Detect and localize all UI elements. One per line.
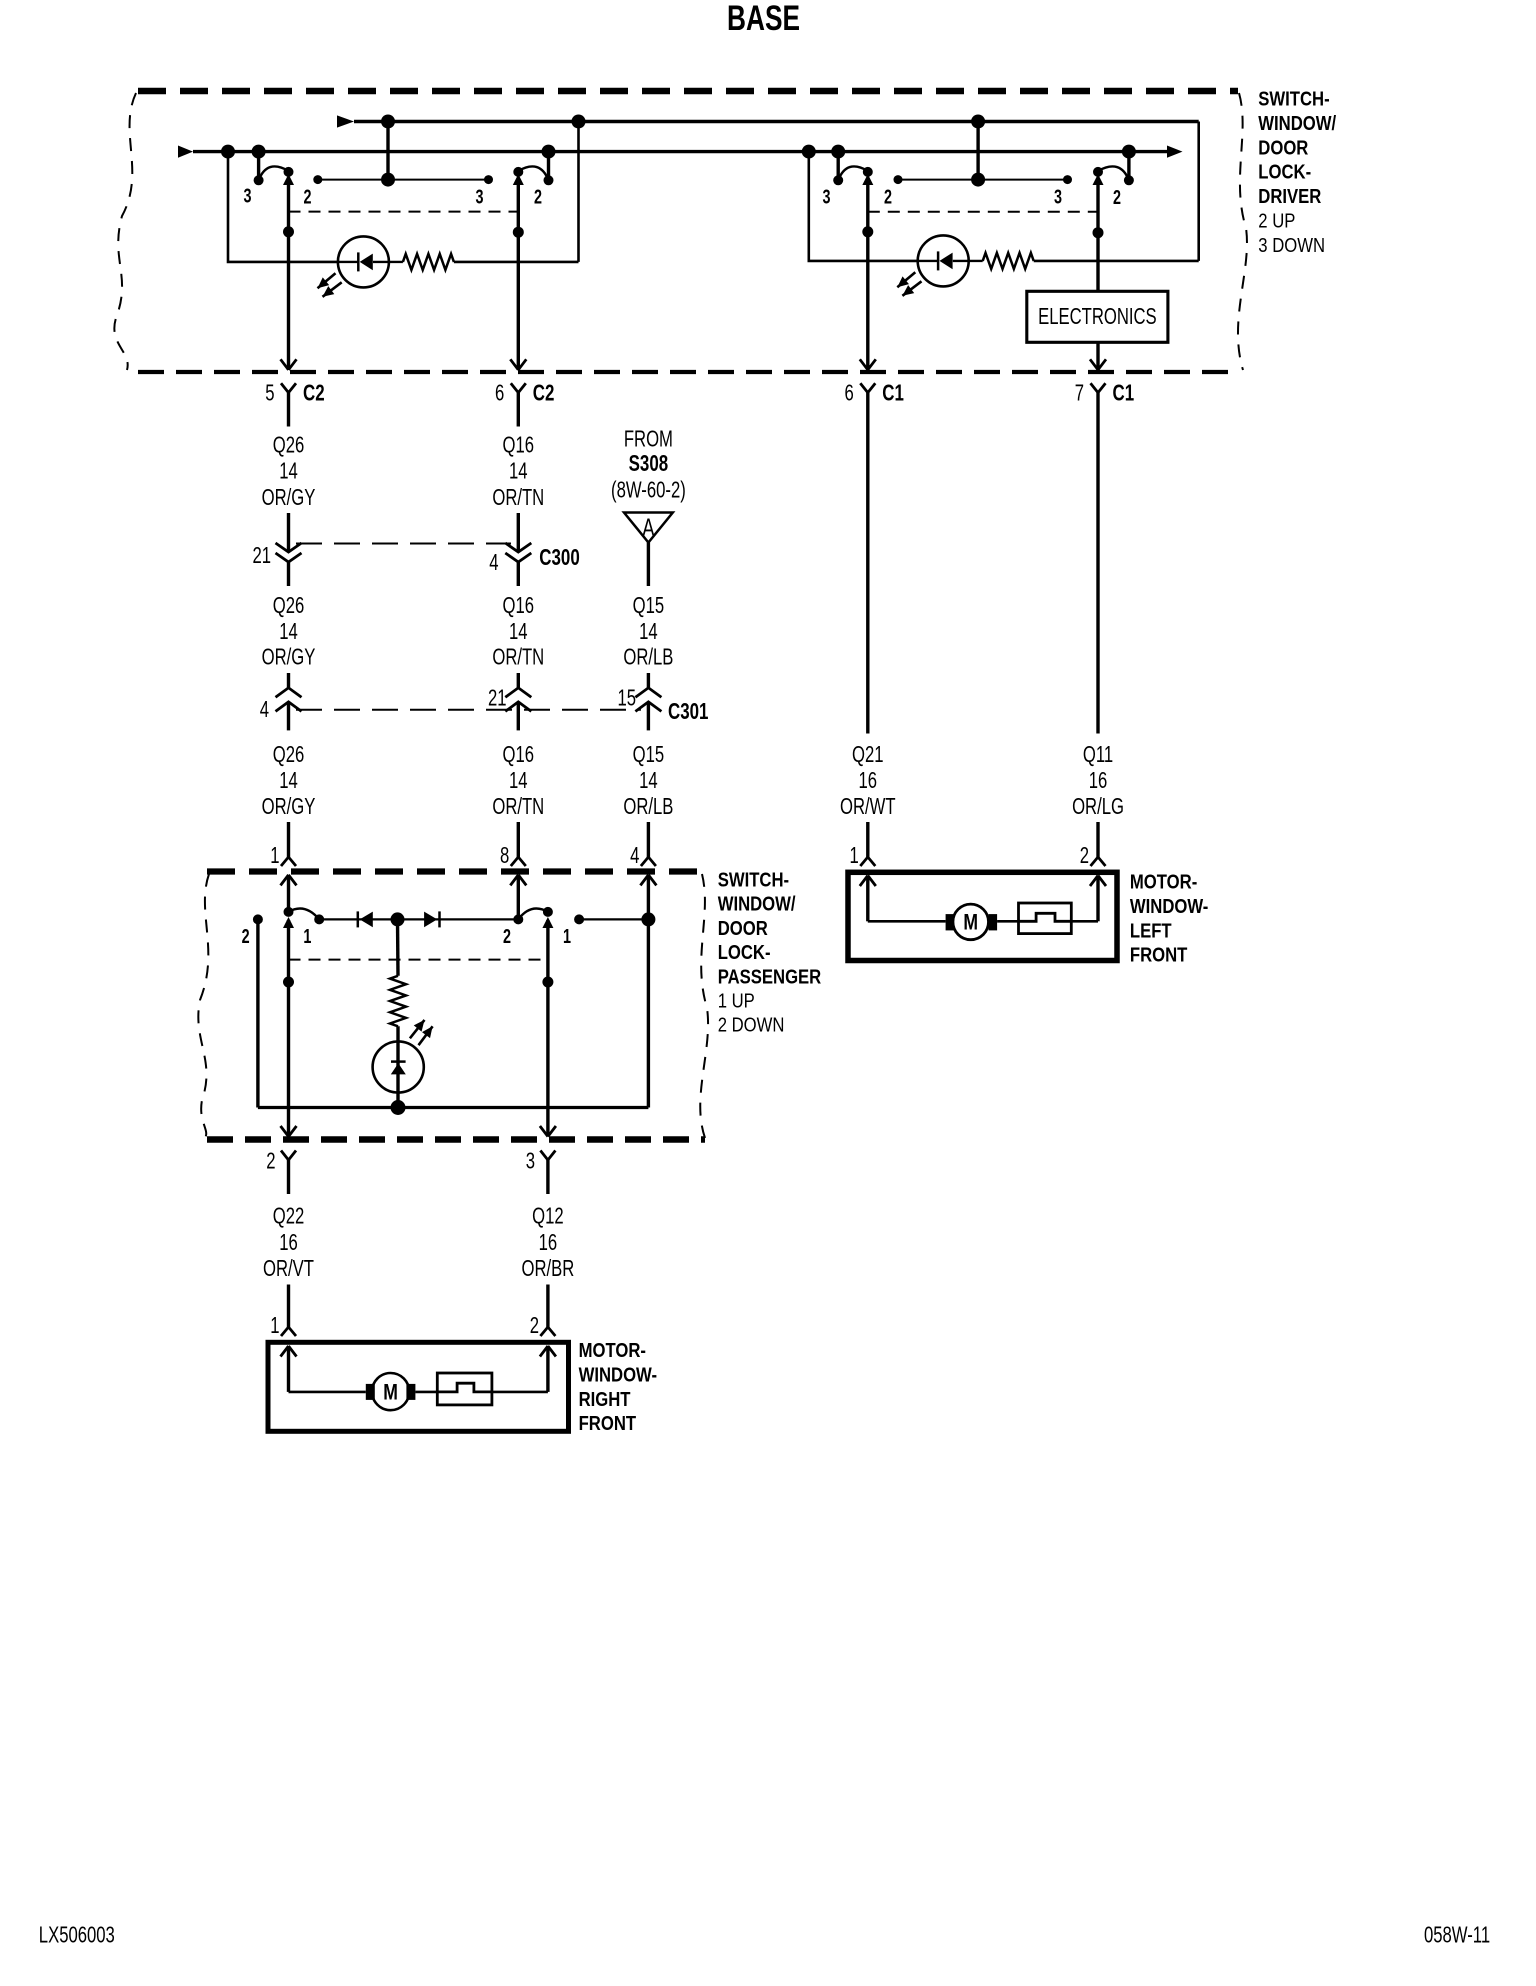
svg-text:(8W-60-2): (8W-60-2) <box>611 478 686 503</box>
C300 dashed link <box>296 543 511 545</box>
wire: electronics to connector 7 <box>1096 342 1099 370</box>
svg-text:LOCK-: LOCK- <box>718 941 771 964</box>
contact bridge line <box>898 179 1068 181</box>
svg-text:14: 14 <box>509 459 528 484</box>
circuit breaker right <box>415 1391 437 1394</box>
svg-text:2: 2 <box>530 1313 539 1338</box>
connector C301 pin 21 <box>505 688 531 698</box>
svg-text:WINDOW/: WINDOW/ <box>718 892 796 915</box>
svg-text:4: 4 <box>630 843 639 868</box>
wire: wiper to connector 6 C1 <box>866 179 869 370</box>
connector 6 C1 <box>860 383 875 392</box>
wire: wiper to connector 5 <box>287 179 290 370</box>
svg-text:4: 4 <box>489 550 498 575</box>
svg-text:3: 3 <box>475 185 483 208</box>
diode right <box>424 912 437 928</box>
off-page triangle A <box>624 513 673 543</box>
wire to motor right pin 1 <box>287 1285 290 1328</box>
svg-text:OR/TN: OR/TN <box>492 795 544 820</box>
svg-text:2: 2 <box>1080 843 1089 868</box>
svg-text:OR/TN: OR/TN <box>492 645 544 670</box>
svg-text:A: A <box>642 513 654 542</box>
svg-text:Q16: Q16 <box>503 433 535 458</box>
svg-text:16: 16 <box>859 768 878 793</box>
svg-text:2: 2 <box>242 925 250 948</box>
wire to passenger switch pin 8 <box>517 822 520 857</box>
svg-text:Q16: Q16 <box>503 742 535 767</box>
svg-text:Q12: Q12 <box>532 1204 564 1229</box>
svg-text:Q15: Q15 <box>633 742 665 767</box>
wire wiper to pin 2 exit <box>287 920 290 1137</box>
svg-text:1: 1 <box>563 925 571 948</box>
passenger switch wiper right <box>513 914 523 924</box>
motor M right <box>372 1373 409 1410</box>
switch wiper (right half of C2 switch) <box>513 167 523 177</box>
svg-text:1 UP: 1 UP <box>718 989 755 1012</box>
svg-text:14: 14 <box>279 620 298 645</box>
diode left <box>357 911 360 927</box>
resistor passenger <box>396 919 400 975</box>
component box: SWITCH-WINDOW/DOOR LOCK-DRIVER (dashed) <box>138 88 1238 95</box>
svg-text:21: 21 <box>252 543 271 568</box>
svg-text:DRIVER: DRIVER <box>1258 185 1321 208</box>
svg-text:2: 2 <box>534 185 542 208</box>
connector 3 (passenger exit) <box>540 1151 555 1161</box>
wire: wiper to electronics <box>1096 179 1099 291</box>
connector 5 C2 <box>281 383 296 392</box>
wire segment <box>287 513 290 552</box>
svg-text:3: 3 <box>243 184 251 207</box>
svg-text:MOTOR-: MOTOR- <box>579 1339 646 1362</box>
svg-text:1: 1 <box>850 843 859 868</box>
entry arrows <box>281 875 297 886</box>
contact bridge line 2-2 <box>318 179 489 181</box>
component box: SWITCH-WINDOW/DOOR LOCK-PASSENGER (dashed) <box>207 868 705 874</box>
svg-text:MOTOR-: MOTOR- <box>1130 870 1197 893</box>
LED passenger <box>396 1026 399 1107</box>
svg-text:C2: C2 <box>303 380 325 406</box>
svg-text:DOOR: DOOR <box>718 916 768 939</box>
wires to motor <box>287 1346 290 1392</box>
svg-text:C1: C1 <box>882 380 904 406</box>
svg-text:058W-11: 058W-11 <box>1424 1923 1490 1948</box>
svg-text:C1: C1 <box>1113 380 1135 406</box>
svg-text:PASSENGER: PASSENGER <box>718 965 822 988</box>
wire to passenger switch pin 4 <box>647 822 650 857</box>
component box: MOTOR-WINDOW-LEFT FRONT <box>848 872 1117 960</box>
connector C301 pin 15 <box>635 688 661 698</box>
svg-text:4: 4 <box>260 697 269 722</box>
svg-text:SWITCH-: SWITCH- <box>1258 87 1329 110</box>
svg-text:C301: C301 <box>668 698 708 724</box>
svg-text:OR/WT: OR/WT <box>840 795 896 820</box>
svg-text:Q16: Q16 <box>503 593 535 618</box>
switch wiper (left half) <box>284 167 294 177</box>
svg-text:14: 14 <box>509 620 528 645</box>
wire pin 8 entry to contact <box>517 875 520 920</box>
svg-text:FRONT: FRONT <box>1130 943 1188 966</box>
svg-text:14: 14 <box>279 768 298 793</box>
svg-text:14: 14 <box>279 459 298 484</box>
svg-text:3 DOWN: 3 DOWN <box>1258 233 1325 256</box>
svg-text:21: 21 <box>488 686 507 711</box>
mechanical link dashed <box>289 959 548 961</box>
connector 2 (passenger exit) <box>281 1151 296 1161</box>
svg-text:2: 2 <box>303 185 311 208</box>
ELECTRONICS box <box>1027 291 1168 342</box>
LED indicator right driver <box>918 235 969 286</box>
open contact 2 <box>253 914 263 924</box>
svg-text:Q21: Q21 <box>852 742 884 767</box>
junction dots upper bus <box>381 115 395 129</box>
circuit breaker left <box>997 920 1018 923</box>
svg-text:2: 2 <box>1113 186 1121 209</box>
passenger switch wiper left <box>287 875 290 912</box>
svg-text:2: 2 <box>266 1149 275 1174</box>
entry arrows <box>860 876 876 887</box>
connector C300 pin 4 <box>505 543 531 552</box>
component box: MOTOR-WINDOW-RIGHT FRONT <box>268 1342 569 1431</box>
wire: LED branch left <box>228 152 338 262</box>
svg-text:Q26: Q26 <box>273 593 305 618</box>
svg-text:2 UP: 2 UP <box>1258 209 1295 232</box>
svg-text:1: 1 <box>270 1313 279 1338</box>
wire: upper feed bus <box>354 120 1199 123</box>
junction dots lower bus <box>221 145 235 159</box>
svg-text:OR/GY: OR/GY <box>262 645 316 670</box>
switch wiper (right half) <box>1093 167 1103 177</box>
wire: resistor to upper bus <box>454 261 579 264</box>
switch contact 3 (left half) <box>257 152 260 181</box>
ground rail <box>258 1106 649 1109</box>
LED indicator left driver <box>338 236 389 287</box>
connector 6 C2 <box>511 383 526 392</box>
svg-text:14: 14 <box>509 768 528 793</box>
wire segment <box>287 673 290 688</box>
svg-text:Q26: Q26 <box>273 433 305 458</box>
svg-text:OR/LB: OR/LB <box>623 645 673 670</box>
wire: LED branch right <box>809 152 918 261</box>
wire 7 C1 to motor left pin 2 <box>1096 427 1099 734</box>
svg-text:WINDOW/: WINDOW/ <box>1258 111 1336 134</box>
svg-text:2 DOWN: 2 DOWN <box>718 1013 785 1036</box>
svg-text:14: 14 <box>639 768 658 793</box>
svg-text:6: 6 <box>495 381 504 406</box>
svg-text:6: 6 <box>845 381 854 406</box>
svg-text:M: M <box>963 911 978 935</box>
svg-text:16: 16 <box>279 1230 298 1255</box>
svg-text:C300: C300 <box>539 544 579 570</box>
svg-text:8: 8 <box>500 843 509 868</box>
svg-text:OR/VT: OR/VT <box>263 1257 314 1282</box>
svg-text:Q15: Q15 <box>633 593 665 618</box>
mechanical link dashed <box>868 211 1098 213</box>
motor M left <box>953 904 989 940</box>
switch contact 3 (right assembly left half) <box>837 152 840 181</box>
svg-text:FRONT: FRONT <box>579 1412 637 1435</box>
svg-text:RIGHT: RIGHT <box>579 1387 632 1410</box>
resistor right driver <box>983 253 1034 269</box>
wire to passenger switch pin 1 <box>287 822 290 857</box>
svg-text:LEFT: LEFT <box>1130 919 1172 942</box>
svg-text:5: 5 <box>265 381 274 406</box>
svg-text:3: 3 <box>1054 185 1062 208</box>
resistor left driver <box>403 254 454 270</box>
svg-text:3: 3 <box>526 1149 535 1174</box>
connector C300 pin 4 / label <box>287 562 290 586</box>
svg-text:BASE: BASE <box>727 0 800 38</box>
svg-text:Q11: Q11 <box>1083 742 1113 767</box>
diode bridge row <box>319 918 518 920</box>
connector C301 pin 4 <box>276 688 302 698</box>
exit arrows at border <box>281 359 297 370</box>
svg-text:ELECTRONICS: ELECTRONICS <box>1038 304 1157 329</box>
wire: wiper to connector 6 <box>517 179 520 370</box>
exit arrows bottom border <box>281 1126 297 1137</box>
svg-text:SWITCH-: SWITCH- <box>718 868 789 891</box>
svg-text:14: 14 <box>639 620 658 645</box>
svg-text:FROM: FROM <box>624 427 673 452</box>
svg-text:15: 15 <box>617 686 636 711</box>
svg-text:C2: C2 <box>533 380 555 406</box>
entry arrows <box>281 1346 297 1357</box>
svg-text:3: 3 <box>822 185 830 208</box>
svg-text:OR/LG: OR/LG <box>1072 795 1124 820</box>
wire from S308 <box>647 543 650 587</box>
wire to motor right pin 2 <box>546 1285 549 1328</box>
svg-text:16: 16 <box>1089 768 1108 793</box>
wire wiper to pin 3 exit <box>546 920 549 1137</box>
svg-text:1: 1 <box>303 925 311 948</box>
wire: lower feed bus <box>193 150 1167 153</box>
center junction <box>391 912 405 926</box>
wire 6 C1 to motor left pin 1 <box>866 427 869 734</box>
svg-text:OR/GY: OR/GY <box>262 485 316 510</box>
svg-text:7: 7 <box>1075 381 1084 406</box>
svg-text:LOCK-: LOCK- <box>1258 160 1311 183</box>
connector C300 pin 21 <box>276 543 302 552</box>
open contact 1 <box>574 914 584 924</box>
wire segment <box>647 673 650 688</box>
svg-text:OR/BR: OR/BR <box>522 1257 575 1282</box>
svg-text:16: 16 <box>539 1230 558 1255</box>
svg-text:LX506003: LX506003 <box>39 1923 115 1948</box>
svg-text:DOOR: DOOR <box>1258 136 1308 159</box>
C301 dashed link <box>296 709 641 711</box>
svg-text:2: 2 <box>503 925 511 948</box>
svg-text:WINDOW-: WINDOW- <box>579 1363 657 1386</box>
connector 7 C1 <box>1091 383 1106 392</box>
wires to motor <box>866 876 869 922</box>
svg-text:Q22: Q22 <box>273 1204 305 1229</box>
svg-text:M: M <box>383 1381 398 1405</box>
svg-text:S308: S308 <box>629 450 669 476</box>
wire pin4 illumination <box>647 875 650 1108</box>
svg-text:2: 2 <box>884 185 892 208</box>
svg-text:OR/TN: OR/TN <box>492 485 544 510</box>
svg-text:OR/LB: OR/LB <box>623 795 673 820</box>
svg-text:1: 1 <box>270 843 279 868</box>
svg-text:OR/GY: OR/GY <box>262 795 316 820</box>
switch wiper <box>863 167 873 177</box>
svg-text:WINDOW-: WINDOW- <box>1130 894 1208 917</box>
svg-text:Q26: Q26 <box>273 742 305 767</box>
mechanical link dashed <box>289 211 519 213</box>
